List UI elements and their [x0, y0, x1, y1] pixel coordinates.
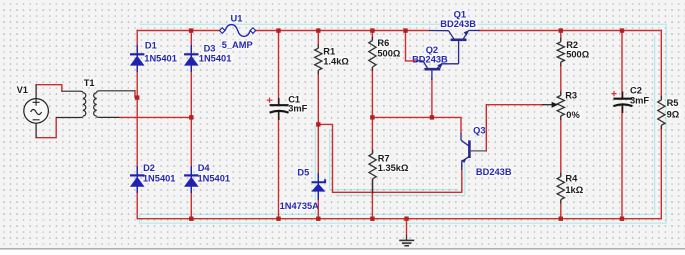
label Q1 [453, 10, 466, 20]
svg-text:R4: R4 [565, 174, 578, 184]
junction bottom rail at D4 column [189, 217, 193, 221]
svg-text:Q1: Q1 [454, 10, 466, 20]
svg-text:R1: R1 [323, 47, 335, 57]
resistor R5 [658, 96, 665, 129]
diode D2 [130, 166, 145, 193]
svg-text:D5: D5 [297, 168, 309, 178]
svg-text:1N5401: 1N5401 [198, 173, 231, 183]
svg-text:Q2: Q2 [426, 45, 438, 55]
svg-text:500Ω: 500Ω [377, 49, 401, 59]
svg-text:1.35kΩ: 1.35kΩ [378, 163, 409, 173]
svg-text:R5: R5 [667, 98, 679, 108]
wire T1 secondary bottom to bridge right column [119, 116, 191, 118]
svg-text:BD243B: BD243B [412, 54, 448, 64]
ground [399, 219, 414, 246]
svg-text:D1: D1 [145, 40, 157, 50]
net highlight right inner vertical [654, 36, 656, 214]
fuse U1 [219, 25, 255, 37]
svg-text:0%: 0% [566, 110, 580, 120]
net highlight left end cap vertical [139, 214, 141, 223]
svg-text:1N5401: 1N5401 [143, 173, 176, 183]
svg-text:1N5401: 1N5401 [199, 53, 232, 63]
junction top rail at C2 [620, 28, 624, 32]
svg-text:U1: U1 [231, 14, 243, 24]
value label D2 1N5401 [143, 173, 178, 183]
svg-text:BD243B: BD243B [476, 167, 512, 177]
wire Q1 collector feed vertical [406, 31, 417, 61]
bottom canvas border [0, 248, 685, 249]
junction top rail at Q1 feed [403, 28, 407, 32]
value label R7 1.35kΩ [377, 163, 411, 173]
label R7 [377, 154, 391, 164]
label C1 [288, 94, 301, 104]
svg-text:9Ω: 9Ω [667, 110, 680, 120]
wire top rail left segment [137, 30, 222, 32]
junction D5 node [316, 122, 320, 126]
diode D4 [184, 166, 199, 193]
capacitor C1 [267, 98, 289, 120]
zener diode D5 [311, 173, 325, 200]
value label R4 1kΩ [565, 185, 585, 195]
wire bottom ground rail [137, 218, 661, 220]
resistor R7 [369, 150, 376, 194]
junction bottom rail at C1 [276, 217, 280, 221]
wire mid divider net horizontal [372, 117, 461, 133]
svg-text:R6: R6 [377, 38, 389, 48]
junction mid net at R6 R7 [370, 115, 374, 119]
net highlight Q3 emitter vertical [464, 163, 466, 195]
value label U1 5_AMP [221, 40, 256, 50]
AC source V1 [24, 85, 49, 138]
label R1 [323, 47, 336, 57]
junction top rail at C1 [276, 28, 280, 32]
label R2 [566, 40, 580, 50]
svg-text:Q3: Q3 [473, 125, 485, 135]
wire left bridge column [136, 31, 138, 219]
wire Q3 collector riser to R3 wiper [486, 105, 543, 151]
svg-text:1N5401: 1N5401 [144, 54, 177, 64]
junction top rail at R1 [316, 28, 320, 32]
value label D3 1N5401 [198, 53, 234, 63]
wire D5 node step to Q3 emitter [318, 124, 462, 192]
label D3 [203, 44, 216, 54]
wire C1 branch [278, 31, 280, 219]
wire right bridge column [190, 31, 192, 219]
svg-text:1kΩ: 1kΩ [565, 185, 583, 195]
value label C1 3mF [288, 103, 308, 113]
resistor R6 [369, 37, 376, 71]
svg-text:BD243B: BD243B [440, 19, 476, 29]
value label D4 1N5401 [197, 173, 232, 183]
label R6 [377, 38, 391, 48]
label V1 [16, 84, 31, 95]
label R5 [666, 98, 680, 108]
value label R2 500Ω [566, 49, 591, 59]
label Q3 [473, 125, 487, 135]
value label R1 1.4kΩ [323, 56, 352, 66]
junction top rail at D3 column [189, 28, 193, 32]
transistor Q1 [429, 30, 480, 64]
value label Q1 BD243B [440, 19, 478, 29]
wire Q2 base vertical [431, 78, 433, 117]
label U1 [230, 14, 244, 24]
net highlight bottom outer horizontal [140, 222, 667, 224]
wire T1 secondary top jog to bridge left column [135, 91, 137, 98]
label R3 [565, 90, 579, 100]
transformer T1 [56, 91, 135, 118]
wire right output branch vertical [660, 31, 662, 219]
net highlight step vertical [329, 129, 331, 190]
junction secondary bottom tap [189, 115, 193, 119]
svg-text:500Ω: 500Ω [566, 50, 590, 60]
junction bottom rail at C2 [620, 217, 624, 221]
net highlight emitter net upper horizontal [330, 189, 459, 191]
svg-text:D4: D4 [198, 163, 211, 173]
junction top rail at R2 [559, 28, 563, 32]
wire R6 / R7 branch [371, 31, 373, 219]
svg-text:V1: V1 [17, 85, 28, 95]
svg-text:3mF: 3mF [288, 103, 307, 113]
value label C2 3mF [630, 96, 650, 106]
wire top rail mid segment (fuse to Q1 collector) [253, 30, 429, 32]
transistor Q2 [416, 61, 443, 80]
svg-text:R3: R3 [565, 90, 577, 100]
potentiometer R3 wiper arrow [542, 102, 558, 108]
svg-text:D3: D3 [204, 44, 216, 54]
value label R3 0% [566, 110, 582, 120]
svg-text:T1: T1 [84, 78, 95, 88]
junction bottom rail at R4 [559, 217, 563, 221]
junction mid net at Q2 base [430, 115, 434, 119]
svg-text:C2: C2 [630, 86, 642, 96]
value label Q3 BD243B [475, 167, 513, 177]
resistor R1 [315, 44, 322, 74]
transistor Q3 [461, 133, 487, 170]
label T1 [83, 78, 97, 88]
net highlight top horizontal [140, 23, 667, 25]
wire top rail right segment (Q1 emitter to right corner) [479, 30, 661, 32]
resistor R2 [557, 38, 564, 66]
wire output divider column R2 R3 R4 [560, 31, 562, 219]
net highlight D5 branch vertical [314, 126, 316, 215]
svg-text:D2: D2 [143, 163, 155, 173]
junction top rail at R6 [370, 28, 374, 32]
wire C2 branch [621, 31, 623, 219]
junction bottom rail at ground [404, 217, 408, 221]
junction bottom rail at D5 [316, 217, 320, 221]
label D2 [143, 163, 156, 173]
label Q2 [425, 45, 438, 55]
svg-text:1N4735A: 1N4735A [280, 201, 320, 211]
net highlight bottom inner horizontal [140, 213, 655, 215]
label D4 [197, 163, 210, 173]
potentiometer R3 [557, 91, 564, 120]
label D1 [144, 40, 157, 50]
value label D5 1N4735A [279, 201, 320, 211]
diode D3 [184, 45, 199, 72]
resistor R4 [557, 173, 564, 204]
wire V1 top to T1 primary top [36, 85, 62, 92]
value label R6 500Ω [377, 49, 402, 59]
svg-text:5_AMP: 5_AMP [222, 40, 253, 50]
label D5 [297, 168, 310, 178]
svg-text:3mF: 3mF [630, 96, 649, 106]
svg-text:1.4kΩ: 1.4kΩ [323, 57, 349, 67]
net highlight emitter net lower horizontal [336, 194, 465, 196]
value label Q2 BD243B [412, 54, 450, 64]
label C2 [630, 86, 643, 96]
diode D1 [130, 45, 145, 72]
net highlight right outer vertical [665, 24, 667, 223]
junction secondary top tap [135, 95, 139, 99]
wire V1 bottom jog [36, 118, 56, 138]
value label R5 9Ω [666, 109, 681, 119]
label R4 [565, 174, 579, 184]
wire R1 / D5 branch [317, 31, 319, 219]
value label D1 1N5401 [144, 54, 179, 64]
junction bottom rail at R7 [370, 217, 374, 221]
capacitor C2 [611, 91, 632, 113]
